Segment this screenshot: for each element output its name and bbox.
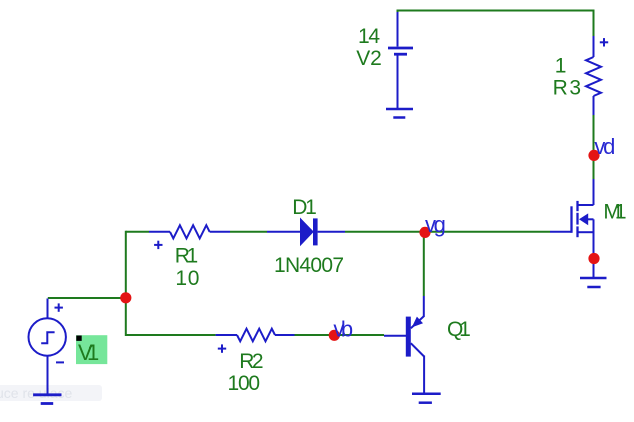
- svg-text:M1: M1: [603, 201, 626, 224]
- svg-text:Q1: Q1: [447, 318, 471, 341]
- svg-text:R1: R1: [175, 245, 198, 268]
- svg-text:10: 10: [175, 267, 199, 290]
- svg-text:uce re ulace: uce re ulace: [0, 385, 72, 401]
- svg-text:D1: D1: [292, 196, 317, 219]
- svg-text:R3: R3: [553, 77, 581, 100]
- svg-text:V2: V2: [356, 47, 382, 70]
- svg-text:vg: vg: [425, 212, 446, 237]
- svg-text:1: 1: [555, 55, 567, 78]
- svg-text:1N4007: 1N4007: [274, 254, 344, 277]
- svg-text:V1: V1: [78, 340, 99, 365]
- svg-text:14: 14: [358, 25, 380, 48]
- svg-text:100: 100: [228, 372, 261, 395]
- svg-text:vb: vb: [333, 316, 353, 341]
- svg-text:R2: R2: [239, 350, 263, 373]
- svg-text:vd: vd: [594, 134, 615, 159]
